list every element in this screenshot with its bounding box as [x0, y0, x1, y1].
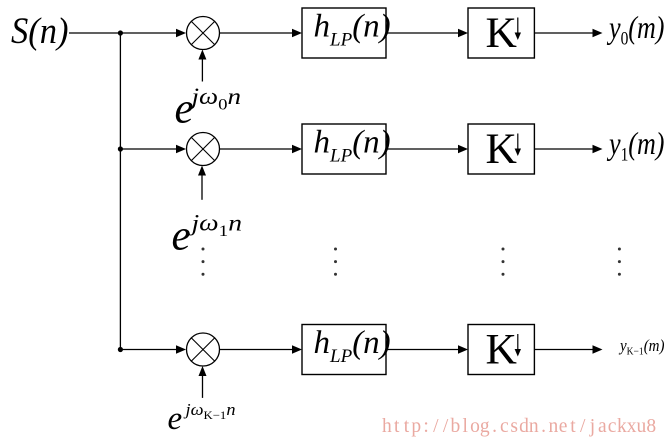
svg-text:hLP(n): hLP(n): [314, 9, 391, 51]
svg-text:e: e: [172, 212, 191, 259]
svg-text:hLP(n): hLP(n): [314, 125, 391, 167]
svg-text:K: K: [486, 125, 517, 173]
svg-text:e: e: [168, 401, 183, 437]
svg-text:S(n): S(n): [11, 11, 69, 52]
svg-text:K: K: [486, 325, 517, 373]
svg-text:http://blog.csdn.net/jackxu8: http://blog.csdn.net/jackxu8: [382, 416, 656, 437]
svg-text:hLP(n): hLP(n): [314, 325, 391, 367]
svg-text:K: K: [486, 9, 517, 57]
svg-text:y1(m): y1(m): [607, 125, 665, 166]
svg-text:y0(m): y0(m): [607, 9, 665, 50]
